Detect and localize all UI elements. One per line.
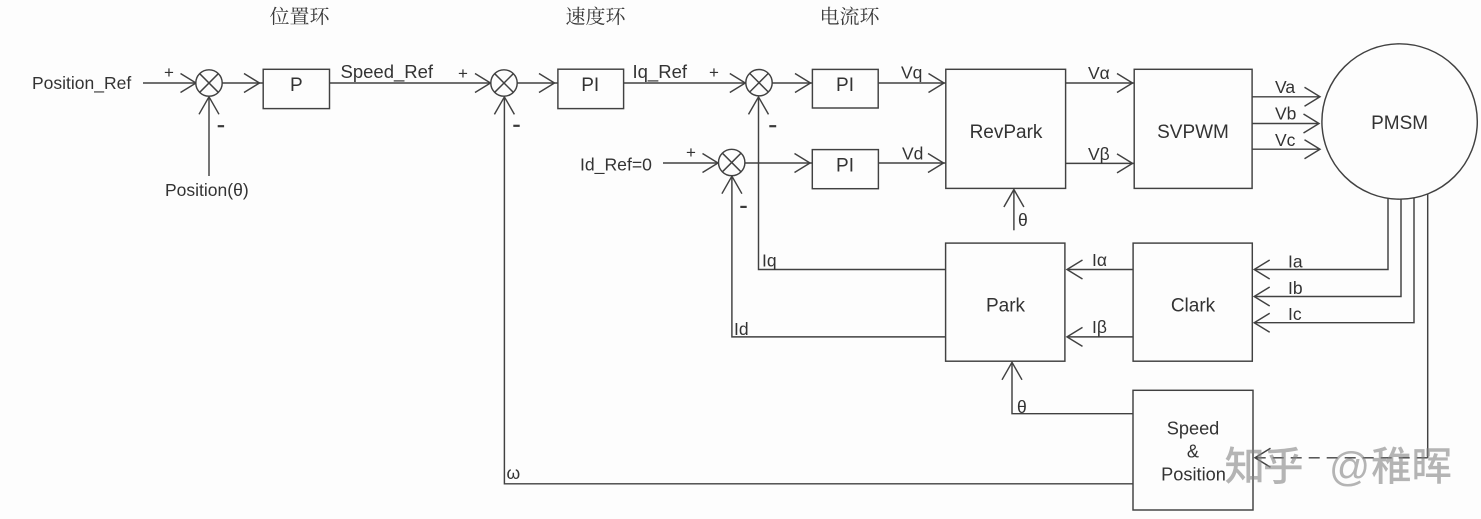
wire PI id to RevPark (Vd): [878, 162, 945, 164]
block SVPWM: [1134, 69, 1252, 188]
wire PMSM phase c to Clark (Ic): [1255, 198, 1415, 323]
wire SVPWM to PMSM (Va): [1252, 96, 1319, 98]
motor PMSM: [1322, 44, 1477, 199]
summing junction S3: [746, 70, 772, 96]
watermark 稚晖: [1372, 446, 1450, 483]
watermark 知乎: [1226, 446, 1302, 484]
wire Speed&Position ω feedback to S2: [504, 98, 1133, 484]
svg-text:Id_Ref=0: Id_Ref=0: [580, 155, 652, 176]
svg-text:Vβ: Vβ: [1088, 144, 1110, 164]
block PI iq: [812, 69, 878, 108]
svg-text:Va: Va: [1275, 77, 1295, 97]
svg-text:ω: ω: [507, 463, 521, 483]
wire Position_Ref to summing junction S1: [143, 82, 195, 84]
wire PI iq to RevPark (Vq): [878, 82, 946, 84]
wire SVPWM to PMSM (Vb): [1252, 123, 1318, 125]
svg-text:P: P: [290, 75, 303, 96]
svg-text:Ia: Ia: [1288, 252, 1303, 272]
wire P to S2 (Speed_Ref): [330, 82, 491, 84]
summing junction S4: [719, 149, 745, 175]
block PI speed: [558, 69, 624, 108]
label - at S1: [218, 125, 224, 127]
label - at S4: [740, 206, 746, 208]
svg-text:Id: Id: [734, 319, 749, 339]
wire PMSM shaft to Speed&Position sensor (dashed horizontal): [1256, 457, 1428, 459]
svg-text:PI: PI: [836, 156, 854, 177]
svg-text:+: +: [686, 143, 696, 162]
wire PI speed to S3 (Iq_Ref): [624, 82, 746, 84]
wire S2 to PI speed block: [517, 82, 558, 84]
wire S4 to PI id block: [745, 162, 812, 164]
svg-text:@: @: [1329, 444, 1370, 490]
wire θ input to RevPark: [1013, 190, 1015, 230]
svg-text:+: +: [458, 64, 468, 83]
svg-text:Park: Park: [986, 296, 1026, 317]
wire RevPark to SVPWM (Vβ): [1066, 162, 1135, 164]
svg-text:Position_Ref: Position_Ref: [32, 73, 131, 94]
svg-text:θ: θ: [1017, 397, 1027, 417]
svg-text:PMSM: PMSM: [1371, 113, 1428, 134]
summing junction S1: [196, 70, 222, 96]
wire Clark to Park (Iα): [1068, 269, 1133, 271]
block Park: [946, 243, 1065, 361]
block RevPark: [946, 69, 1066, 188]
svg-text:&: &: [1187, 442, 1199, 462]
caption position loop 位置环: [270, 7, 329, 25]
svg-text:θ: θ: [1018, 210, 1028, 230]
wire Id_Ref to S4: [663, 162, 717, 164]
svg-text:Vc: Vc: [1275, 130, 1296, 150]
wire Speed&Position θ to Park: [1012, 363, 1133, 414]
svg-text:SVPWM: SVPWM: [1157, 122, 1229, 143]
svg-text:Position(θ): Position(θ): [165, 180, 249, 200]
wire RevPark to SVPWM (Vα): [1066, 82, 1135, 84]
label - at S3: [769, 125, 776, 127]
svg-text:PI: PI: [836, 75, 854, 96]
caption current loop 电流环: [822, 7, 879, 26]
wire S1 to P block: [222, 82, 263, 84]
wire S3 to PI iq block: [772, 82, 812, 84]
svg-text:+: +: [709, 63, 719, 82]
svg-text:PI: PI: [581, 75, 599, 96]
block P: [263, 69, 329, 108]
svg-text:Vd: Vd: [902, 144, 923, 164]
svg-text:Iα: Iα: [1092, 250, 1107, 270]
svg-text:Position: Position: [1161, 465, 1226, 485]
svg-text:Vb: Vb: [1275, 104, 1296, 124]
caption speed loop 速度环: [566, 6, 624, 25]
svg-text:Speed: Speed: [1167, 419, 1220, 439]
svg-text:Vα: Vα: [1088, 63, 1110, 83]
svg-text:Iβ: Iβ: [1092, 317, 1107, 337]
block Speed & Position: [1133, 390, 1253, 510]
summing junction S2: [491, 70, 517, 96]
wire SVPWM to PMSM (Vc): [1252, 148, 1319, 150]
wire Park Id feedback to S4: [732, 177, 946, 337]
block Clark: [1133, 243, 1252, 361]
wire Position(θ) feedback into S1: [208, 98, 210, 177]
svg-text:RevPark: RevPark: [970, 122, 1043, 143]
svg-text:Iq_Ref: Iq_Ref: [633, 61, 688, 83]
wire PMSM shaft to Speed&Position sensor (vertical): [1427, 195, 1429, 458]
svg-text:Clark: Clark: [1171, 296, 1216, 317]
label - at S2: [513, 125, 519, 127]
svg-text:Vq: Vq: [901, 63, 922, 83]
wire Clark to Park (Iβ): [1068, 336, 1133, 338]
wire PMSM phase a to Clark (Ia): [1255, 198, 1389, 269]
svg-text:Ic: Ic: [1288, 304, 1302, 324]
block PI id: [812, 150, 878, 189]
svg-text:+: +: [164, 63, 174, 82]
svg-text:Speed_Ref: Speed_Ref: [341, 61, 434, 83]
wire Park Iq feedback to S3: [759, 98, 946, 270]
svg-text:Ib: Ib: [1288, 278, 1303, 298]
wire PMSM phase b to Clark (Ib): [1255, 199, 1402, 296]
svg-text:Iq: Iq: [762, 251, 777, 271]
